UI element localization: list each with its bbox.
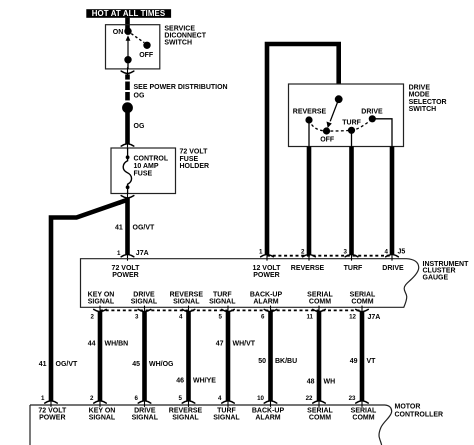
svg-text:TURF: TURF (342, 120, 361, 127)
svg-text:12 VOLT: 12 VOLT (253, 265, 282, 272)
svg-text:SERIAL: SERIAL (350, 292, 376, 299)
svg-text:44: 44 (88, 340, 96, 347)
wire banner to service disconnect switch (125, 18, 130, 30)
svg-text:WH: WH (324, 379, 336, 386)
svg-text:OG: OG (134, 123, 145, 130)
wire lower contact to box edge (127, 60, 129, 69)
svg-text:2: 2 (90, 395, 94, 402)
fuse F1 top terminal dot (126, 155, 130, 159)
selector arm arrow to OFF (330, 99, 339, 121)
svg-text:6: 6 (261, 313, 265, 320)
wire 48 WH (317, 312, 322, 401)
svg-text:6: 6 (135, 395, 139, 402)
svg-text:COMM: COMM (309, 415, 331, 422)
cluster pin 3 terminal (345, 253, 358, 260)
instrument cluster gauge box outline (81, 259, 419, 308)
svg-text:OG/VT: OG/VT (56, 361, 79, 368)
wire 45 WH/OG (142, 312, 147, 401)
selector common contact dot (335, 95, 343, 103)
svg-text:5: 5 (179, 395, 183, 402)
svg-text:DRIVE: DRIVE (134, 407, 156, 414)
svg-text:22: 22 (306, 395, 313, 402)
wire 44 WH/BN (98, 312, 103, 401)
wire DRIVE to cluster pin 4 (390, 147, 395, 255)
svg-text:COMM: COMM (352, 415, 374, 422)
svg-text:DRIVE: DRIVE (382, 265, 404, 272)
power feed banner HOT AT ALL TIMES (86, 9, 171, 18)
connector terminal below switch (121, 68, 134, 75)
svg-text:J5: J5 (398, 249, 406, 256)
svg-text:SWITCH: SWITCH (409, 106, 437, 113)
cluster bottom pin 12 terminal (356, 306, 369, 313)
svg-text:1: 1 (117, 250, 121, 257)
service disconnect switch S1 box (106, 25, 160, 69)
svg-text:SIGNAL: SIGNAL (213, 415, 240, 422)
svg-text:POWER: POWER (253, 272, 279, 279)
fuse F1 bottom terminal dot (126, 185, 130, 189)
svg-text:11: 11 (306, 313, 313, 320)
svg-text:12: 12 (349, 313, 356, 320)
svg-text:WH/VT: WH/VT (233, 340, 256, 347)
svg-text:OFF: OFF (320, 137, 335, 144)
svg-text:SERIAL: SERIAL (307, 407, 333, 414)
fuse holder box (111, 148, 176, 194)
wire 50 BK/BU (268, 312, 273, 401)
switch lower contact dot (124, 56, 131, 63)
wire dashed OG segment 3 (125, 92, 130, 100)
controller pin 5 terminal (182, 400, 195, 407)
controller pin 6 terminal (138, 400, 151, 407)
svg-text:COMM: COMM (309, 299, 331, 306)
wire DRIVE contact to box edge (372, 119, 392, 147)
connector terminal below fuse holder (121, 192, 134, 199)
svg-text:3: 3 (135, 313, 139, 320)
cluster bottom pin 6 terminal (264, 306, 277, 313)
fuse F1 element CONTROL 10 AMP FUSE (123, 157, 131, 187)
svg-text:SIGNAL: SIGNAL (131, 299, 158, 306)
svg-text:48: 48 (307, 379, 315, 386)
svg-text:KEY ON: KEY ON (88, 292, 115, 299)
svg-text:TURF: TURF (344, 265, 363, 272)
svg-text:DRIVE: DRIVE (361, 109, 383, 116)
svg-text:HOT AT ALL TIMES: HOT AT ALL TIMES (92, 9, 166, 18)
svg-text:SIGNAL: SIGNAL (132, 415, 159, 422)
svg-text:DRIVE: DRIVE (133, 292, 155, 299)
svg-text:SWITCH: SWITCH (164, 40, 192, 47)
svg-text:10: 10 (257, 395, 264, 402)
svg-text:2: 2 (301, 249, 305, 256)
switch arm with arrow toward ON (127, 40, 129, 60)
selector TURF contact dot (348, 127, 355, 134)
svg-text:GAUGE: GAUGE (423, 275, 449, 282)
svg-text:HOLDER: HOLDER (180, 163, 210, 170)
svg-text:50: 50 (258, 358, 266, 365)
svg-text:REVERSE: REVERSE (293, 109, 327, 116)
svg-text:1: 1 (259, 249, 263, 256)
controller pin 10 terminal (264, 400, 277, 407)
switch OFF contact dot (143, 42, 150, 49)
cluster bottom pin 3 terminal (138, 306, 151, 313)
svg-text:J7A: J7A (136, 250, 149, 257)
svg-text:41: 41 (115, 225, 123, 232)
svg-text:CONTROLLER: CONTROLLER (395, 412, 444, 419)
selector REVERSE contact dot (305, 116, 312, 123)
svg-text:OG: OG (134, 92, 145, 99)
svg-text:WH/BN: WH/BN (105, 340, 129, 347)
wire OG junction to fuse holder (125, 108, 130, 144)
svg-text:72 VOLT: 72 VOLT (112, 265, 141, 272)
wire 47 WH/VT (226, 312, 231, 401)
svg-text:CONTROL: CONTROL (134, 156, 169, 163)
svg-text:DICONNECT: DICONNECT (164, 33, 206, 40)
wire TURF to cluster pin 3 (349, 147, 354, 255)
controller pin 4 terminal (222, 400, 235, 407)
wire into fuse holder (127, 148, 129, 157)
wire dashed OG segment 1 (125, 74, 130, 79)
svg-text:REVERSE: REVERSE (169, 407, 203, 414)
cluster pin 2 terminal (303, 253, 316, 260)
svg-text:POWER: POWER (39, 415, 65, 422)
drive mode selector switch box (289, 84, 404, 147)
svg-text:4: 4 (218, 395, 222, 402)
svg-text:REVERSE: REVERSE (170, 292, 204, 299)
wire TURF contact to box edge (351, 130, 353, 146)
svg-text:WH/YE: WH/YE (193, 377, 216, 384)
svg-text:TURF: TURF (217, 407, 236, 414)
svg-text:72 VOLT: 72 VOLT (180, 148, 209, 155)
cluster pin 1 terminal (121, 253, 134, 260)
svg-text:SELECTOR: SELECTOR (409, 99, 447, 106)
svg-text:KEY ON: KEY ON (89, 407, 116, 414)
svg-text:MODE: MODE (409, 92, 430, 99)
svg-text:BACK-UP: BACK-UP (250, 292, 283, 299)
switch ON contact dot (124, 28, 131, 35)
svg-text:49: 49 (350, 358, 358, 365)
svg-text:BK/BU: BK/BU (275, 358, 297, 365)
wire 46 WH/YE (186, 312, 191, 401)
svg-text:47: 47 (216, 340, 224, 347)
wire REVERSE to cluster pin 2 (307, 147, 312, 255)
wire 12 volt power cluster pin 1 to drive mode switch (267, 44, 339, 254)
junction splice dot (122, 102, 133, 113)
cluster bottom pin 5 terminal (222, 306, 235, 313)
svg-text:SERIAL: SERIAL (351, 407, 377, 414)
selector DRIVE contact dot (369, 115, 376, 122)
connector J7A dashed housing (100, 309, 362, 311)
svg-text:ON: ON (113, 29, 124, 36)
svg-text:COMM: COMM (351, 299, 373, 306)
svg-text:SIGNAL: SIGNAL (209, 299, 236, 306)
svg-text:SIGNAL: SIGNAL (88, 299, 115, 306)
cluster pin 1 12V terminal (261, 253, 274, 260)
svg-text:3: 3 (344, 249, 348, 256)
motor controller box outline (30, 405, 392, 445)
svg-text:ALARM: ALARM (255, 415, 280, 422)
svg-text:VT: VT (367, 358, 377, 365)
svg-text:ALARM: ALARM (253, 299, 278, 306)
svg-text:WH/OG: WH/OG (149, 361, 174, 368)
svg-text:41: 41 (39, 361, 47, 368)
svg-text:SEE POWER DISTRIBUTION: SEE POWER DISTRIBUTION (134, 84, 228, 91)
cluster bottom pin 11 terminal (313, 306, 326, 313)
svg-text:SIGNAL: SIGNAL (172, 415, 199, 422)
controller pin 22 terminal (313, 400, 326, 407)
connector terminal at fuse holder input (121, 143, 134, 150)
svg-text:45: 45 (132, 361, 140, 368)
svg-text:SIGNAL: SIGNAL (89, 415, 116, 422)
controller pin 1 terminal (45, 400, 58, 407)
wire 41 OG/VT fuse to cluster pin 1 J7A (125, 198, 130, 254)
wire dashed OG segment 2 (125, 82, 130, 91)
svg-text:TURF: TURF (213, 292, 232, 299)
svg-text:23: 23 (349, 395, 356, 402)
svg-text:46: 46 (176, 377, 184, 384)
svg-text:OG/VT: OG/VT (133, 225, 156, 232)
svg-text:10 AMP: 10 AMP (134, 163, 159, 170)
svg-text:4: 4 (385, 249, 389, 256)
selector dashed travel arc (309, 119, 372, 131)
cluster bottom pin 4 terminal (182, 306, 195, 313)
svg-text:SERIAL: SERIAL (307, 292, 333, 299)
svg-text:OFF: OFF (139, 52, 154, 59)
controller pin 23 terminal (356, 400, 369, 407)
switch dashed throw ON to OFF (131, 34, 144, 43)
svg-text:POWER: POWER (112, 272, 138, 279)
svg-text:1: 1 (41, 395, 45, 402)
svg-text:SIGNAL: SIGNAL (173, 299, 200, 306)
svg-text:72 VOLT: 72 VOLT (38, 407, 67, 414)
svg-text:5: 5 (219, 313, 223, 320)
cluster bottom pin 2 terminal (94, 306, 107, 313)
wire REVERSE contact to box edge (308, 120, 310, 147)
svg-text:FUSE: FUSE (180, 156, 199, 163)
controller pin 2 terminal (94, 400, 107, 407)
svg-text:SERVICE: SERVICE (164, 25, 195, 32)
svg-text:4: 4 (179, 313, 183, 320)
cluster pin 4 terminal (386, 253, 399, 260)
svg-text:REVERSE: REVERSE (291, 265, 325, 272)
selector OFF contact dot (323, 127, 330, 134)
wire fuse to box edge (127, 187, 129, 193)
svg-text:2: 2 (91, 313, 95, 320)
connector J5 dashed housing (267, 255, 392, 257)
wire 49 VT (360, 312, 365, 401)
svg-text:BACK-UP: BACK-UP (252, 407, 285, 414)
svg-text:MOTOR: MOTOR (395, 404, 421, 411)
svg-text:FUSE: FUSE (134, 170, 153, 177)
svg-text:DRIVE: DRIVE (409, 84, 431, 91)
wire 41 OG/VT branch to motor controller (51, 200, 127, 401)
svg-text:J7A: J7A (368, 314, 381, 321)
